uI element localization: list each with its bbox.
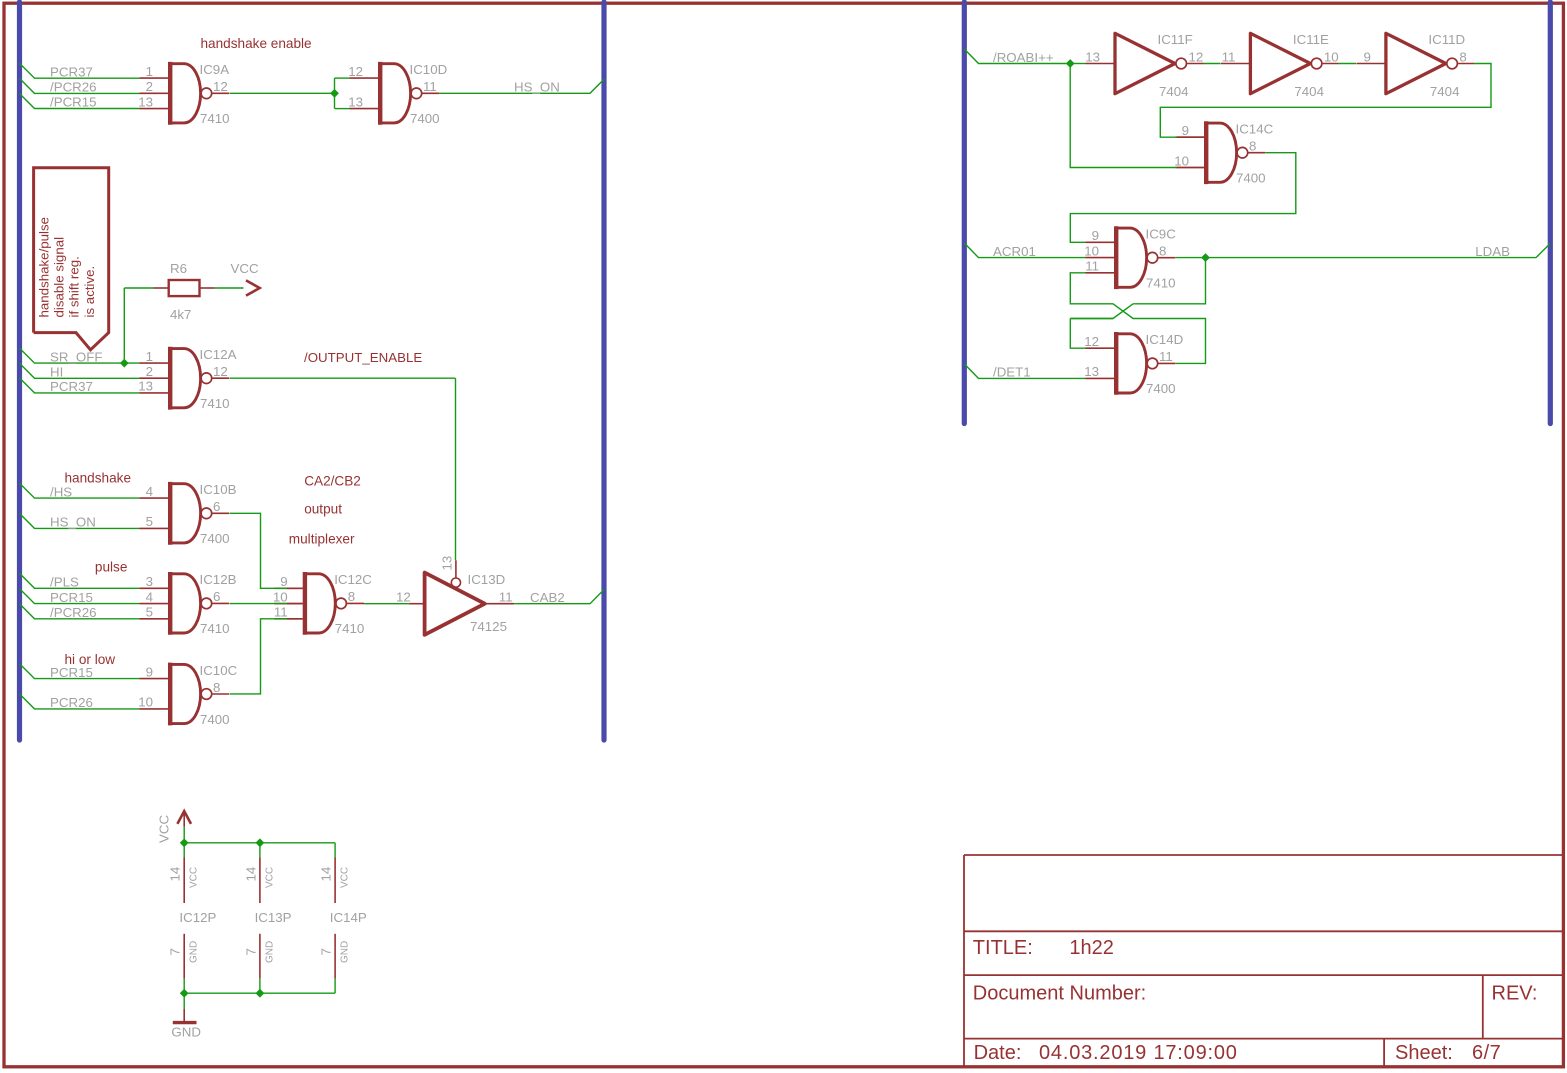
- svg-text:/PCR26: /PCR26: [50, 80, 97, 95]
- svg-text:4: 4: [146, 589, 153, 604]
- svg-text:HS_ON: HS_ON: [514, 80, 560, 95]
- svg-text:IC11D: IC11D: [1428, 32, 1465, 47]
- svg-text:HS_ON: HS_ON: [50, 515, 96, 530]
- svg-text:IC9C: IC9C: [1146, 227, 1177, 242]
- svg-text:REV:: REV:: [1492, 983, 1538, 1005]
- svg-text:5: 5: [146, 605, 153, 620]
- svg-text:HI: HI: [50, 365, 63, 380]
- svg-text:7410: 7410: [200, 396, 230, 411]
- svg-text:/PCR15: /PCR15: [50, 95, 97, 110]
- svg-text:11: 11: [499, 590, 513, 605]
- svg-text:14: 14: [243, 867, 258, 882]
- svg-text:output: output: [304, 501, 342, 516]
- svg-text:7: 7: [319, 948, 334, 955]
- svg-text:7400: 7400: [1236, 171, 1266, 186]
- svg-text:3: 3: [146, 574, 153, 589]
- svg-text:/ROABI++: /ROABI++: [993, 50, 1054, 65]
- svg-text:multiplexer: multiplexer: [289, 532, 355, 547]
- svg-text:1: 1: [146, 64, 153, 79]
- svg-text:IC9A: IC9A: [200, 62, 230, 77]
- svg-text:IC13P: IC13P: [255, 910, 292, 925]
- svg-text:hi or low: hi or low: [65, 652, 116, 667]
- svg-text:7400: 7400: [200, 712, 230, 727]
- svg-text:Date:: Date:: [974, 1042, 1022, 1064]
- svg-text:13: 13: [1085, 49, 1100, 64]
- svg-text:handshake: handshake: [65, 471, 132, 486]
- svg-text:VCC: VCC: [157, 815, 172, 843]
- svg-text:PCR15: PCR15: [50, 665, 93, 680]
- svg-text:IC12A: IC12A: [200, 347, 237, 362]
- svg-text:13: 13: [1084, 364, 1099, 379]
- svg-text:12: 12: [1084, 334, 1099, 349]
- svg-text:PCR15: PCR15: [50, 590, 93, 605]
- svg-text:VCC: VCC: [231, 261, 259, 276]
- svg-text:8: 8: [213, 680, 220, 695]
- svg-text:4: 4: [146, 484, 153, 499]
- svg-text:8: 8: [1159, 244, 1166, 259]
- svg-text:1h22: 1h22: [1069, 937, 1114, 959]
- svg-text:7410: 7410: [1146, 276, 1176, 291]
- svg-text:handshake enable: handshake enable: [201, 36, 312, 51]
- svg-text:/HS: /HS: [50, 484, 72, 499]
- svg-text:10: 10: [1084, 243, 1099, 258]
- svg-text:4k7: 4k7: [170, 307, 191, 322]
- svg-text:LDAB: LDAB: [1475, 244, 1510, 259]
- svg-text:IC12B: IC12B: [200, 572, 237, 587]
- svg-text:12: 12: [396, 590, 411, 605]
- svg-text:9: 9: [146, 664, 153, 679]
- svg-text:7400: 7400: [1146, 381, 1176, 396]
- svg-text:7404: 7404: [1294, 84, 1324, 99]
- svg-text:/PCR26: /PCR26: [50, 605, 97, 620]
- svg-text:IC10C: IC10C: [200, 663, 238, 678]
- svg-text:8: 8: [1249, 139, 1256, 154]
- svg-text:2: 2: [146, 364, 153, 379]
- svg-text:6: 6: [213, 499, 220, 514]
- svg-text:13: 13: [348, 94, 363, 109]
- svg-text:R6: R6: [170, 261, 187, 276]
- svg-text:Sheet:: Sheet:: [1395, 1042, 1453, 1064]
- svg-text:PCR37: PCR37: [50, 379, 93, 394]
- svg-text:9: 9: [1363, 49, 1370, 64]
- svg-text:/OUTPUT_ENABLE: /OUTPUT_ENABLE: [304, 350, 422, 365]
- svg-text:is active.: is active.: [82, 266, 97, 318]
- svg-text:6/7: 6/7: [1472, 1042, 1501, 1064]
- svg-text:2: 2: [146, 79, 153, 94]
- svg-text:IC11F: IC11F: [1158, 32, 1193, 47]
- svg-text:11: 11: [423, 79, 437, 94]
- svg-text:GND: GND: [264, 941, 275, 963]
- svg-text:10: 10: [1174, 153, 1189, 168]
- svg-text:11: 11: [274, 605, 288, 620]
- svg-text:13: 13: [138, 379, 153, 394]
- svg-text:TITLE:: TITLE:: [973, 937, 1033, 959]
- svg-text:IC12C: IC12C: [334, 572, 372, 587]
- svg-text:CAB2: CAB2: [530, 590, 565, 605]
- svg-text:6: 6: [213, 589, 220, 604]
- svg-text:7400: 7400: [200, 531, 230, 546]
- svg-text:GND: GND: [171, 1025, 201, 1040]
- svg-text:7410: 7410: [200, 621, 230, 636]
- svg-text:VCC: VCC: [264, 867, 275, 888]
- svg-text:7400: 7400: [410, 111, 440, 126]
- svg-text:12: 12: [213, 79, 228, 94]
- svg-text:9: 9: [1092, 228, 1099, 243]
- svg-text:14: 14: [319, 867, 334, 882]
- svg-text:8: 8: [348, 589, 355, 604]
- svg-text:7: 7: [243, 948, 258, 955]
- svg-text:CA2/CB2: CA2/CB2: [304, 473, 361, 488]
- svg-text:PCR26: PCR26: [50, 695, 93, 710]
- svg-text:12: 12: [1189, 49, 1204, 64]
- svg-text:5: 5: [146, 514, 153, 529]
- svg-text:IC11E: IC11E: [1293, 32, 1329, 47]
- svg-text:1: 1: [146, 349, 153, 364]
- svg-text:IC14P: IC14P: [330, 910, 367, 925]
- svg-text:04.03.2019 17:09:00: 04.03.2019 17:09:00: [1039, 1042, 1238, 1064]
- svg-text:SR_OFF: SR_OFF: [50, 349, 102, 364]
- svg-text:/DET1: /DET1: [993, 365, 1031, 380]
- svg-text:IC13D: IC13D: [468, 572, 506, 587]
- svg-text:handshake/pulse: handshake/pulse: [37, 217, 52, 318]
- svg-text:VCC: VCC: [189, 867, 200, 888]
- svg-text:10: 10: [1324, 49, 1339, 64]
- svg-text:12: 12: [213, 364, 228, 379]
- svg-text:PCR37: PCR37: [50, 64, 93, 79]
- svg-text:12: 12: [348, 64, 363, 79]
- svg-text:11: 11: [1085, 259, 1099, 274]
- svg-text:GND: GND: [189, 941, 200, 963]
- svg-text:9: 9: [280, 574, 287, 589]
- svg-text:ACR01: ACR01: [993, 244, 1036, 259]
- svg-text:10: 10: [138, 695, 153, 710]
- svg-text:13: 13: [138, 94, 153, 109]
- svg-text:/PLS: /PLS: [50, 575, 79, 590]
- svg-text:pulse: pulse: [95, 560, 128, 575]
- svg-text:7404: 7404: [1430, 84, 1460, 99]
- svg-text:GND: GND: [340, 941, 351, 963]
- svg-text:7410: 7410: [335, 621, 365, 636]
- svg-text:IC10B: IC10B: [200, 482, 237, 497]
- svg-text:11: 11: [1222, 49, 1236, 64]
- svg-text:IC12P: IC12P: [179, 910, 216, 925]
- svg-text:7410: 7410: [200, 111, 230, 126]
- svg-text:IC10D: IC10D: [410, 62, 448, 77]
- svg-text:11: 11: [1159, 349, 1173, 364]
- svg-text:IC14D: IC14D: [1146, 332, 1184, 347]
- svg-text:VCC: VCC: [340, 867, 351, 888]
- svg-text:9: 9: [1182, 123, 1189, 138]
- svg-text:8: 8: [1459, 49, 1466, 64]
- svg-text:74125: 74125: [470, 619, 507, 634]
- svg-text:disable signal: disable signal: [52, 237, 67, 318]
- svg-text:Document Number:: Document Number:: [973, 983, 1146, 1005]
- svg-text:if shift reg.: if shift reg.: [67, 256, 82, 317]
- svg-text:14: 14: [168, 867, 183, 882]
- svg-text:13: 13: [439, 556, 454, 571]
- svg-text:IC14C: IC14C: [1236, 122, 1274, 137]
- svg-text:7404: 7404: [1159, 84, 1189, 99]
- svg-text:10: 10: [273, 589, 288, 604]
- svg-text:7: 7: [168, 948, 183, 955]
